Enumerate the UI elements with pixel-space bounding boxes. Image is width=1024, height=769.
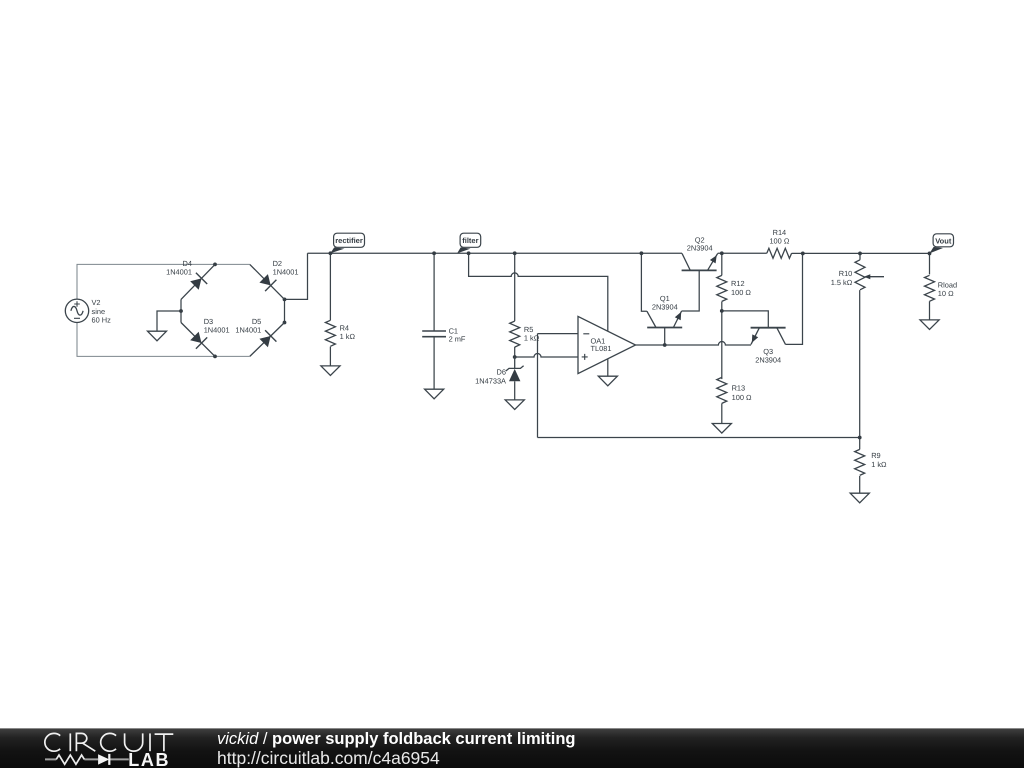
- wire Q1 emitter to Q2 base: [682, 270, 700, 311]
- resistor R9: [855, 449, 865, 475]
- node filter junction: [467, 251, 471, 255]
- node Vout junction: [928, 252, 932, 256]
- label D6 1N4733A: [475, 368, 506, 386]
- svg-text:R13: R13: [732, 384, 746, 393]
- transistor Q3: [751, 328, 786, 345]
- label D4 1N4001: [166, 259, 192, 277]
- svg-text:R9: R9: [871, 451, 880, 460]
- svg-text:1N4001: 1N4001: [204, 326, 230, 335]
- svg-text:filter: filter: [462, 236, 478, 245]
- ground Rload: [920, 320, 939, 330]
- transistor Q1: [647, 311, 682, 328]
- wire V2 bottom to bridge: [77, 323, 215, 357]
- svg-text:1 kΩ: 1 kΩ: [871, 460, 887, 469]
- wire R4 to ground: [329, 347, 331, 366]
- label R13 100 Ω: [732, 384, 752, 402]
- wire C1 to ground: [433, 337, 435, 390]
- label Q2 2N3904: [687, 235, 713, 252]
- ground R13: [712, 424, 731, 434]
- capacitor C1: [422, 331, 446, 337]
- svg-text:2N3904: 2N3904: [687, 244, 713, 253]
- diode D3: [181, 323, 215, 357]
- zener diode D6: [506, 357, 524, 381]
- svg-text:1N4733A: 1N4733A: [475, 377, 506, 386]
- wire bridge top horizontal: [215, 263, 250, 265]
- resistor R12: [717, 275, 727, 301]
- wire R9 drop: [859, 438, 861, 450]
- resistor R14: [767, 248, 792, 258]
- voltage source V2: [65, 299, 88, 322]
- wire R10 bottom to feedback node: [859, 290, 861, 437]
- wire feedback bottom horizontal: [538, 437, 860, 439]
- resistor R4: [325, 320, 335, 346]
- node R12 R13 Q3 base junction: [720, 309, 724, 313]
- wire D6 anode to ground: [514, 381, 516, 400]
- svg-text:1N4001: 1N4001: [235, 326, 261, 335]
- label D3 1N4001: [204, 317, 230, 334]
- label Rload 10 Ω: [938, 280, 957, 298]
- wire C1 drop: [433, 253, 435, 331]
- svg-text:2N3904: 2N3904: [652, 302, 678, 311]
- wire Q3 base: [722, 311, 769, 328]
- node flag Vout: [930, 234, 954, 254]
- CircuitLab logo: [38, 728, 218, 768]
- diode D2: [250, 264, 285, 299]
- label Q3 2N3904: [755, 347, 781, 364]
- wire Q3 collector riser: [786, 253, 803, 344]
- node R5 top junction: [513, 251, 517, 255]
- wire R10 drop: [859, 253, 861, 259]
- svg-text:100 Ω: 100 Ω: [731, 288, 751, 297]
- wire bridge right vertical: [284, 299, 286, 322]
- svg-text:10 Ω: 10 Ω: [938, 289, 954, 298]
- node bridge right lower junction: [283, 321, 287, 325]
- node flag filter: [457, 233, 481, 253]
- svg-text:rectifier: rectifier: [335, 236, 363, 245]
- svg-text:1 kΩ: 1 kΩ: [524, 334, 540, 343]
- label C1 2 mF: [449, 326, 466, 343]
- label R5 1 kΩ: [524, 325, 540, 343]
- wire op-amp output (hop over R13): [636, 342, 751, 345]
- svg-text:Rload: Rload: [938, 280, 957, 289]
- ground op-amp: [598, 376, 617, 386]
- node Q2 emitter R12 R14 junction: [720, 251, 724, 255]
- wire Rload to ground: [929, 301, 931, 320]
- svg-text:R12: R12: [731, 279, 745, 288]
- node C1 junction: [432, 251, 436, 255]
- wire bridge output riser: [285, 253, 308, 299]
- resistor Rload: [925, 275, 935, 301]
- node bridge left junction: [179, 309, 183, 313]
- wire Rload drop: [929, 253, 931, 274]
- node R10 top junction: [858, 252, 862, 256]
- wire op-amp - input: [538, 333, 579, 335]
- ground R4: [321, 366, 340, 376]
- node bridge bottom junction: [213, 355, 217, 359]
- wire R5 bottom to junction: [514, 347, 516, 357]
- wire Q1 collector riser: [641, 253, 647, 311]
- svg-text:2 mF: 2 mF: [449, 335, 466, 344]
- svg-text:100 Ω: 100 Ω: [732, 393, 752, 402]
- label R14 100 Ω: [769, 228, 789, 246]
- wire R12 bottom to R13: [721, 302, 723, 380]
- node Q1 base junction: [663, 343, 667, 347]
- wire R4 drop: [329, 253, 331, 320]
- ground bridge: [148, 331, 167, 341]
- label OA1 TL081: [591, 336, 612, 353]
- resistor R5: [510, 321, 520, 347]
- node bridge top junction: [213, 263, 217, 267]
- svg-text:Vout: Vout: [935, 236, 952, 245]
- wire R5 drop: [514, 253, 516, 321]
- node rectifier junction: [329, 251, 333, 255]
- wire bridge left vertical: [180, 299, 182, 322]
- svg-text:1N4001: 1N4001: [166, 268, 192, 277]
- svg-text:100 Ω: 100 Ω: [769, 237, 789, 246]
- svg-text:R5: R5: [524, 325, 533, 334]
- wire Q1 base: [664, 328, 666, 346]
- label V2 sine 60 Hz: [92, 298, 112, 324]
- wire junction to op-amp + input (hop over feedback): [515, 354, 578, 357]
- label D2 1N4001: [273, 259, 299, 277]
- svg-text:60 Hz: 60 Hz: [92, 315, 112, 324]
- label R12 100 Ω: [731, 279, 751, 297]
- node bridge right upper junction: [283, 298, 287, 302]
- wire R13 to ground: [721, 403, 723, 423]
- node R14 right Q3 collector junction: [801, 252, 805, 256]
- svg-text:D6: D6: [497, 368, 506, 377]
- diode D4: [181, 264, 215, 299]
- wire bridge bottom horizontal: [215, 355, 250, 357]
- label R10 1.5 kΩ: [831, 269, 853, 287]
- wire R12 drop: [721, 253, 723, 275]
- node Q1/Q2 collector junction: [640, 251, 644, 255]
- wire rectifier rail: [308, 252, 683, 254]
- wire Vout rail: [718, 252, 930, 254]
- wire V2 top to bridge: [77, 264, 215, 299]
- svg-text:2N3904: 2N3904: [755, 356, 781, 365]
- svg-text:TL081: TL081: [591, 344, 612, 353]
- node flag rectifier: [330, 233, 364, 253]
- svg-text:1.5 kΩ: 1.5 kΩ: [831, 278, 853, 287]
- svg-text:1 kΩ: 1 kΩ: [340, 332, 356, 341]
- node R10 R9 feedback junction: [858, 436, 862, 440]
- wire op-amp V- to ground: [607, 359, 609, 376]
- wire R9 to ground: [859, 476, 861, 493]
- label D5 1N4001: [235, 317, 261, 334]
- wire bridge node to ground: [157, 311, 181, 331]
- ground C1: [425, 389, 444, 399]
- svg-text:1N4001: 1N4001: [273, 268, 299, 277]
- resistor R13: [717, 377, 727, 403]
- svg-text:LAB: LAB: [128, 750, 170, 768]
- svg-text:R10: R10: [839, 269, 853, 278]
- label R9 1 kΩ: [871, 451, 887, 469]
- diode D5: [250, 323, 285, 357]
- wire feedback vertical: [537, 334, 539, 438]
- ground D6: [505, 400, 524, 410]
- label Q1 2N3904: [652, 294, 678, 311]
- op-amp OA1: [578, 316, 636, 373]
- potentiometer R10: [855, 260, 884, 290]
- wire filter to op-amp V+ (hop over R5): [469, 253, 608, 331]
- svg-text:R14: R14: [773, 228, 787, 237]
- node R5 D6 op-amp junction: [513, 355, 517, 359]
- label R4 1 kΩ: [340, 323, 356, 341]
- transistor Q2: [682, 253, 718, 270]
- ground R9: [850, 493, 869, 503]
